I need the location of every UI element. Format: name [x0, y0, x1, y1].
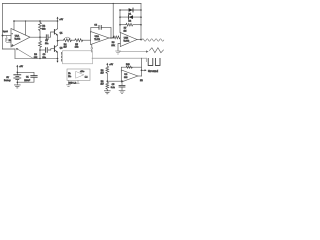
node input terminal: [2, 35, 4, 37]
capacitor C4: [99, 26, 100, 29]
svg-text:TL072: TL072: [94, 39, 101, 41]
node R3 tap: [39, 49, 41, 51]
op-amp U3: [121, 70, 138, 82]
svg-text:D2: D2: [128, 21, 132, 23]
svg-text:1,2: 1,2: [85, 76, 88, 78]
wire left input bus: [2, 4, 4, 50]
diode D2: [120, 16, 141, 18]
ground R9: [104, 91, 110, 94]
wire bias to op-amp3: [107, 80, 124, 82]
svg-text:+Vcc: +Vcc: [80, 71, 84, 73]
node rail: [57, 58, 59, 60]
svg-text:IN-: IN-: [68, 73, 71, 75]
svg-text:1/2: 1/2: [140, 80, 143, 82]
wire top bus: [3, 3, 142, 5]
svg-text:R9: R9: [101, 81, 105, 83]
node Vcc junction: [57, 20, 59, 22]
svg-text:R10: R10: [126, 64, 131, 66]
svg-text:220uF: 220uF: [24, 80, 31, 82]
wire U1A pin stub 2: [25, 21, 27, 35]
diode D1: [120, 9, 141, 11]
svg-text:-: -: [12, 32, 13, 36]
node U2B output: [140, 39, 142, 41]
svg-text:C4: C4: [94, 25, 97, 27]
svg-text:U2B: U2B: [124, 38, 129, 40]
node mid tap: [57, 40, 59, 42]
resistor R5: [75, 39, 83, 42]
transistor Q2: [53, 46, 55, 52]
icon triangle wave: [150, 48, 164, 53]
svg-text:R8: R8: [101, 70, 105, 72]
wire diode network inner vertical: [119, 10, 121, 33]
box IC1: [67, 69, 90, 80]
wire mid signal: [58, 39, 64, 42]
resistor R3: [39, 37, 42, 58]
battery BT1: [16, 67, 18, 75]
svg-text:IN+: IN+: [68, 76, 72, 78]
svg-text:U2A: U2A: [95, 35, 100, 38]
resistor R4: [64, 39, 72, 42]
svg-text:Battery: Battery: [4, 79, 12, 82]
svg-text:R3: R3: [34, 54, 38, 56]
ground IC1: [68, 80, 70, 84]
ground U2B: [116, 51, 121, 54]
wire op-amp1 inverting input: [3, 35, 12, 37]
svg-text:4k7: 4k7: [63, 47, 67, 49]
transistor Q1: [53, 30, 55, 35]
svg-text:+9V: +9V: [59, 19, 63, 21]
svg-text:C5: C5: [112, 84, 116, 86]
ground C5: [119, 91, 125, 94]
wire ground rail left: [15, 58, 58, 60]
svg-text:C2: C2: [45, 40, 48, 42]
capacitor C5: [121, 81, 123, 85]
resistor R6: [113, 36, 120, 39]
svg-text:+9V: +9V: [19, 66, 23, 68]
svg-text:10k: 10k: [42, 29, 46, 31]
svg-text:10k: 10k: [111, 45, 115, 47]
svg-text:R5: R5: [75, 44, 79, 46]
icon square wave: [148, 58, 160, 65]
op-amp U1A: [11, 29, 30, 48]
op-amp U2B: [120, 33, 137, 47]
resistor R2: [39, 21, 42, 37]
wire U3 output: [138, 75, 142, 77]
power +9V rail arrow: [57, 18, 59, 21]
wire feedback loop U2A: [91, 27, 111, 38]
svg-text:R4: R4: [64, 44, 68, 46]
resistor R1: [5, 36, 11, 43]
svg-text:+9V: +9V: [109, 64, 113, 66]
capacitor C1: [17, 72, 34, 75]
wire diode network outer vertical: [112, 4, 114, 38]
svg-text:GND 1,2: GND 1,2: [68, 83, 77, 85]
wire U2A + input stub: [91, 44, 93, 52]
svg-text:Ground: Ground: [148, 69, 158, 73]
svg-text:4k7: 4k7: [100, 84, 104, 86]
svg-text:Q1: Q1: [60, 32, 64, 34]
resistor R7 feedback: [120, 24, 126, 26]
wire feedback top of U1A: [14, 20, 58, 22]
node feedback left: [13, 20, 15, 22]
svg-text:TL072: TL072: [123, 41, 130, 43]
svg-text:R6: R6: [112, 42, 116, 44]
wire U2B output: [137, 39, 141, 41]
resistor R8: [106, 66, 109, 73]
wire op-amp1 output: [30, 36, 46, 38]
wire feedback U3: [121, 67, 141, 72]
svg-text:386: 386: [124, 77, 128, 79]
svg-text:1M: 1M: [124, 30, 127, 32]
wire diode network right vertical: [140, 4, 142, 40]
node U2A output: [112, 37, 114, 39]
box network: [63, 51, 93, 64]
wire U3 right vertical: [141, 58, 143, 76]
svg-text:4k7: 4k7: [100, 73, 104, 75]
svg-text:Input: Input: [3, 30, 8, 33]
power battery arrow: [16, 67, 18, 68]
op-amp U2A: [91, 32, 110, 45]
node divider: [107, 80, 109, 82]
ground battery: [14, 85, 20, 88]
svg-text:0.1u: 0.1u: [111, 87, 116, 89]
wire squiggle output: [141, 39, 164, 41]
resistor R9: [106, 82, 109, 90]
svg-text:C1: C1: [26, 76, 30, 78]
wire ground rail right: [92, 57, 146, 59]
svg-text:C3: C3: [43, 54, 47, 56]
wire U2B + input ground: [118, 44, 120, 51]
power divider arrow: [106, 65, 108, 66]
wire rail arrow stub: [57, 59, 59, 62]
svg-text:9V: 9V: [6, 77, 9, 79]
wire U1A pin stub 1: [13, 21, 15, 30]
node R2 top: [39, 20, 41, 22]
wire lower-left corner: [3, 49, 16, 59]
svg-text:R7: R7: [124, 28, 128, 30]
svg-text:R1: R1: [9, 40, 12, 42]
node op-amp1 output junction: [39, 36, 41, 38]
svg-text:R2: R2: [42, 26, 46, 28]
capacitor C3: [40, 49, 45, 51]
wire diagonal arrow: [17, 49, 33, 58]
arrow signal flow: [119, 51, 147, 53]
svg-text:TL072: TL072: [14, 39, 21, 41]
svg-text:U3: U3: [124, 74, 128, 76]
svg-text:U1A: U1A: [15, 35, 20, 38]
svg-text:10k: 10k: [75, 47, 79, 49]
wire U2A output: [109, 37, 113, 39]
capacitor C2: [46, 35, 48, 40]
svg-text:10n: 10n: [45, 43, 48, 45]
